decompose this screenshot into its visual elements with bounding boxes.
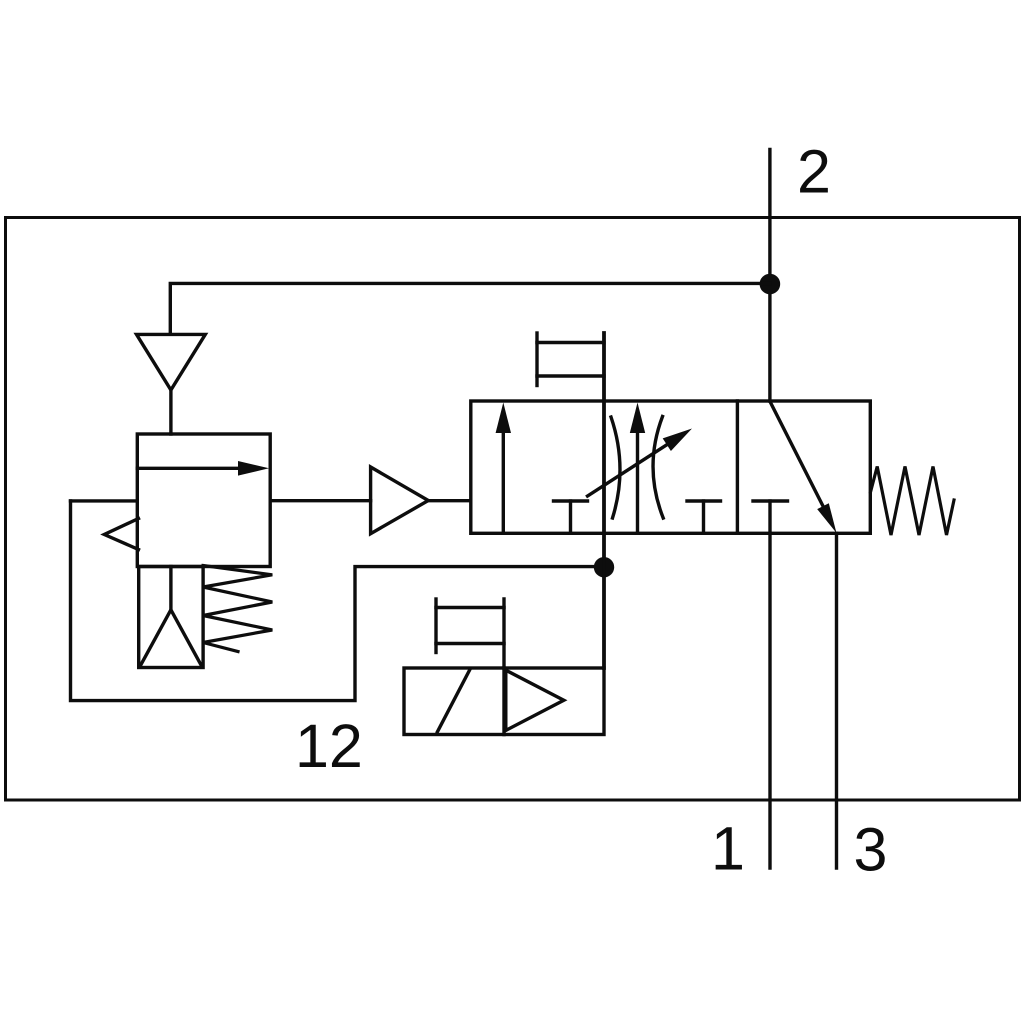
wire regulator to amplifier <box>270 499 370 502</box>
exhaust triangle <box>137 334 206 390</box>
valve divider right <box>736 401 739 533</box>
solenoid pilot valve body <box>404 668 604 735</box>
valve left position flow arrow <box>502 433 505 533</box>
regulator spring <box>203 566 272 652</box>
regulator relief arrowhead <box>104 519 138 550</box>
node junction pilot <box>594 557 614 577</box>
wire regulator left port <box>71 499 138 502</box>
node junction on port 2 line <box>760 274 781 295</box>
wire triangle to regulator <box>169 390 172 434</box>
wire port 2 <box>768 150 771 402</box>
valve blocked port T3 <box>753 499 788 502</box>
wire port 1 <box>768 533 771 868</box>
wire amplifier to valve <box>428 499 471 502</box>
wire port 3 <box>835 533 838 868</box>
svg-text:2: 2 <box>797 138 831 206</box>
valve blocked port T2 <box>687 499 721 502</box>
valve blocked port T1 <box>554 499 588 502</box>
regulator flow arrow <box>137 467 240 470</box>
pilot cap top <box>535 333 538 386</box>
svg-text:3: 3 <box>854 816 888 884</box>
solenoid coil diagonal <box>437 669 470 732</box>
regulator adjuster <box>139 567 203 668</box>
valve body <box>471 401 871 533</box>
throttle arcs <box>611 417 620 518</box>
amplifier triangle <box>371 467 429 534</box>
regulator body <box>137 434 270 567</box>
throttle adjustment arrow <box>588 444 669 496</box>
solenoid amplifier triangle <box>506 670 564 730</box>
valve right position flow path 2-3 <box>770 402 827 515</box>
wire feedback top <box>170 283 770 334</box>
pilot line through valve <box>602 333 606 668</box>
wire feedback loop <box>71 501 605 701</box>
svg-text:1: 1 <box>711 815 745 883</box>
valve middle position flow arrow <box>636 433 639 533</box>
svg-text:12: 12 <box>295 712 363 780</box>
pilot cap lower <box>434 599 437 653</box>
valve return spring <box>871 467 955 536</box>
